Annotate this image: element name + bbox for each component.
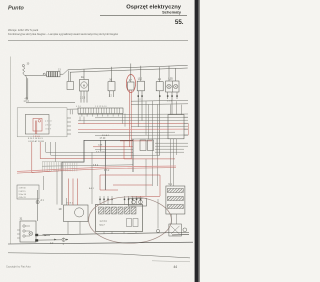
strip pin stubs: [82, 114, 118, 117]
svg-text:1 5 12 8 4 6: 1 5 12 8 4 6: [95, 106, 107, 108]
svg-text:P 6 2: P 6 2: [104, 170, 110, 172]
connector strip 24: [78, 108, 123, 114]
legend box: [17, 185, 39, 199]
wire grey 163: [42, 165, 133, 166]
ignition block pads: [35, 234, 38, 242]
svg-text:r 3 e 7: r 3 e 7: [45, 128, 52, 131]
svg-text:1 2 3 4: 1 2 3 4: [100, 221, 108, 223]
wire grid rail: [42, 161, 84, 163]
highlight ellipse big: [89, 197, 172, 243]
wire 16 pins: [110, 91, 114, 97]
right cluster wires: [155, 139, 188, 186]
small relay boxes: [140, 140, 154, 151]
svg-text:4 5 2: 4 5 2: [93, 165, 99, 167]
wire ignition pair: [26, 77, 28, 100]
wire strip to boxA: [70, 110, 72, 115]
svg-text:c 8 u 2: c 8 u 2: [45, 125, 52, 127]
svg-text:A 8 1: A 8 1: [89, 187, 95, 190]
wire fusebox top pins: [100, 196, 141, 205]
wire 17 top: [130, 64, 132, 83]
battery G1: [22, 65, 26, 77]
motor M: [80, 80, 89, 92]
wire grid verticals: [43, 162, 77, 172]
lamp unit 17: [128, 82, 134, 90]
wire red band: [17, 168, 176, 174]
wire L10 pins: [138, 91, 142, 127]
ground rail right segment: [172, 234, 189, 236]
svg-text:C4 B2 A7 D3 B5: C4 B2 A7 D3 B5: [28, 140, 45, 143]
wire relay19 red pins: [69, 179, 78, 206]
ground bus: [8, 242, 193, 244]
svg-text:4 2 6: 4 2 6: [76, 106, 82, 108]
footer rule: [8, 253, 190, 258]
wire L35 pins: [168, 92, 177, 115]
connector box right pins: [184, 117, 188, 135]
wire red 147: [93, 146, 133, 148]
wire grey 149: [95, 149, 133, 151]
control unit internals: [45, 121, 52, 131]
L10 pin pads: [138, 95, 143, 97]
fusebox pin pads: [99, 199, 141, 201]
lamp circle far right: [183, 228, 187, 232]
ground rail: [43, 232, 190, 234]
connector box right: [168, 115, 184, 139]
ignition block 31: [20, 221, 36, 242]
wire red link: [131, 196, 160, 198]
wire bus top right: [131, 100, 188, 104]
bus band horizontal wires: [78, 114, 188, 139]
wire L9 top: [159, 67, 161, 82]
ignition block right pins: [38, 234, 62, 240]
connector stack right: [166, 186, 185, 214]
svg-text:5 6 7: 5 6 7: [100, 225, 106, 227]
connector small: [67, 82, 74, 90]
control unit box A inner: [25, 115, 49, 135]
wire rail 15: [70, 68, 188, 72]
svg-text:17 40: 17 40: [100, 138, 106, 140]
wire relay19 grey pin: [66, 198, 68, 205]
relay 19: [64, 205, 89, 222]
lamp cluster L35: [166, 81, 179, 92]
svg-text:Kombinacyjna skrzynka biegów –: Kombinacyjna skrzynka biegów – Lampka sy…: [8, 32, 118, 36]
wire motor pins: [81, 91, 87, 103]
solenoid box: [129, 198, 147, 206]
wire lamp right: [157, 199, 159, 229]
ecu step outline: [62, 140, 133, 205]
wire motor top: [83, 69, 85, 79]
svg-text:2 Wl 15: 2 Wl 15: [19, 191, 27, 193]
footer rule echo: [152, 261, 190, 262]
wire L10 top: [140, 66, 142, 81]
lamp unit 16: [108, 82, 115, 91]
node splice A: [43, 73, 45, 75]
svg-text:Schematy: Schematy: [162, 10, 182, 15]
footer text: [6, 265, 177, 269]
diode box: [169, 224, 182, 236]
wire grey drop 57: [56, 171, 58, 205]
wire battery feed: [25, 74, 47, 76]
splice circle bottom left: [36, 190, 39, 221]
svg-text:Copyright by Fiat Auto: Copyright by Fiat Auto: [6, 266, 31, 269]
L9 pin pad: [159, 95, 161, 97]
control unit pins: [67, 118, 71, 134]
svg-text:L10: L10: [138, 78, 143, 81]
ignition block left pins: [17, 230, 20, 238]
svg-text:8 3 8 1: 8 3 8 1: [67, 203, 74, 205]
wire ecu stub: [100, 140, 102, 151]
wire 16 top: [111, 67, 113, 82]
wire grey stub 43: [43, 176, 45, 190]
svg-text:o 1 n 4: o 1 n 4: [45, 121, 52, 123]
header: [8, 5, 188, 41]
wire red rect: [100, 175, 160, 196]
wire red drop left1: [32, 142, 62, 173]
svg-text:1 Wl 30: 1 Wl 30: [19, 188, 27, 190]
lamp splice: [62, 238, 68, 242]
wire grey drops left: [46, 142, 160, 162]
wire L9 pin: [159, 91, 161, 156]
wire pink band: [17, 166, 176, 172]
wire red 141: [120, 140, 152, 142]
svg-text:B 4 A 2: B 4 A 2: [102, 134, 110, 137]
highlight ellipse 17: [126, 75, 135, 93]
wire bus red 123: [78, 122, 188, 125]
fuse box 25: [96, 205, 143, 232]
wire fusebox bottom stubs: [104, 232, 136, 234]
switch red detail: [33, 119, 42, 139]
wire L35 tops: [169, 66, 176, 81]
control unit box A outer: [17, 108, 67, 137]
lamp unit L9: [156, 82, 163, 91]
wire fuse drop pair: [69, 71, 71, 82]
svg-text:4 Kb 31: 4 Kb 31: [19, 197, 27, 199]
wire stack drops: [171, 214, 176, 224]
wire rail 30: [68, 65, 188, 69]
wire red drop left2: [40, 142, 131, 159]
wire central vertical2: [132, 139, 134, 172]
scan edge right: [195, 0, 199, 282]
arrow splice left: [54, 239, 56, 241]
svg-text:Wersje: 1242 16V S pack: Wersje: 1242 16V S pack: [8, 28, 39, 32]
svg-text:Punto: Punto: [8, 6, 24, 12]
wire line under strip: [67, 108, 78, 110]
lamp unit L10: [137, 81, 144, 91]
wire left border rail: [10, 57, 12, 244]
wire bus pink 129: [78, 128, 188, 131]
wire 17 red pins: [130, 90, 132, 159]
svg-text:44: 44: [174, 265, 178, 269]
svg-text:1 2 3: 1 2 3: [80, 97, 86, 99]
svg-text:3 Sw 50: 3 Sw 50: [19, 194, 27, 196]
wire central vertical: [104, 140, 106, 190]
wire junction bus top: [26, 101, 75, 104]
wire relay19 bottom stubs: [68, 222, 80, 235]
bus band vertical droppers: [80, 101, 181, 186]
svg-text:9 6 3 5 8: 9 6 3 5 8: [96, 152, 105, 154]
wire fuse to rail: [60, 70, 68, 75]
wire red down right: [124, 141, 175, 159]
wire grey mid drop: [92, 152, 146, 204]
svg-text:8 10 2 14 9 6 3: 8 10 2 14 9 6 3: [28, 138, 43, 140]
wire red right edge: [187, 123, 189, 135]
fuse F13: [47, 72, 60, 77]
L35 pin pads: [167, 95, 178, 97]
svg-text:55.: 55.: [175, 19, 184, 26]
lamp circle right: [156, 229, 159, 232]
